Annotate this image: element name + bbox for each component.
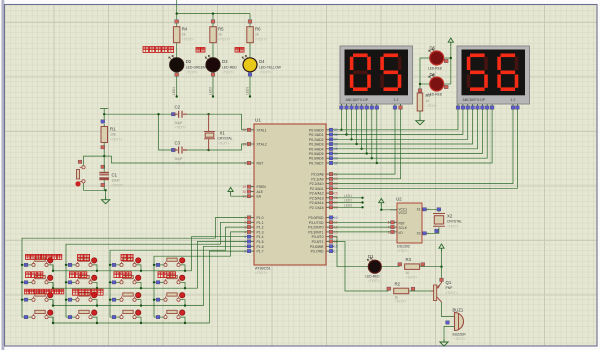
crystal X2 [433,208,462,233]
push button SW r2c3 [112,275,141,284]
svg-text:5: 5 [244,235,246,239]
wire left display common 1 to P2.0 [334,110,395,174]
wire col4 row1 left stub [154,264,164,266]
wire VCC-C2 top wire [104,113,173,115]
svg-text:P1.2: P1.2 [257,226,264,230]
svg-text:<TEXT>: <TEXT> [397,249,409,253]
junction node P0.4-left-display [360,148,362,150]
svg-text:1 2: 1 2 [394,98,399,102]
svg-text:PNP: PNP [446,286,454,290]
svg-text:35: 35 [334,147,338,151]
wire left display common 2 to P2.1 [334,110,401,179]
wire col4 row3 left stub [154,299,164,301]
wire P2.6 LED2 net wire [334,202,363,204]
junction node RST [103,155,105,157]
svg-text:X2: X2 [447,214,453,219]
ground (below R7) [416,118,424,125]
junction node col1 r1 [21,264,23,266]
red label keypad miao-ji [78,254,90,260]
svg-text:I/O: I/O [399,231,404,235]
svg-text:P1.1: P1.1 [257,221,264,225]
right display common pin stubs 1,2 [511,104,519,110]
svg-text:<TEXT>: <TEXT> [186,71,198,75]
svg-text:P0.6/AD6: P0.6/AD6 [309,157,324,161]
wire row4 col3 drop [136,317,141,323]
svg-text:R4: R4 [182,27,188,32]
junction node row2 c1 [52,287,54,289]
svg-text:P1.5: P1.5 [257,240,264,244]
svg-text:9: 9 [244,161,246,165]
wire row3 first drop [52,300,54,306]
wire right display common 2 to P2.3 [334,110,517,188]
svg-text:P1.7: P1.7 [257,250,264,254]
svg-text:P0.1/AD1: P0.1/AD1 [309,133,324,137]
wire col1 row4 left stub [22,316,32,318]
push button SW r3c2 [68,293,97,302]
red label keypad zuo-bian-jia [26,272,43,278]
wire col2 row2 left stub [66,281,76,283]
wire P2.7 LED3 net wire [334,206,363,208]
U1 right pins (P0.x/ADx, P2.x/Ax, P3.x) [308,128,338,254]
wire row4 col4 drop [180,317,185,323]
wire col3 row1 left stub [110,264,120,266]
wire C3 to crystal node [187,149,209,151]
svg-text:P3.6/WR: P3.6/WR [310,245,324,249]
svg-text:P1.6: P1.6 [257,245,264,249]
svg-text:P1.3: P1.3 [257,230,264,234]
svg-text:P2.4/A12: P2.4/A12 [310,192,324,196]
svg-text:EA: EA [257,195,262,199]
net label LED3 under D4 [246,87,252,98]
junction node col2 r3 [65,299,67,301]
junction node P0.2-left-display [350,138,352,140]
svg-text:P2.0/A8: P2.0/A8 [311,173,323,177]
svg-text:DS1302: DS1302 [397,245,410,249]
svg-text:P1.4: P1.4 [257,235,264,239]
junction node row4 c4 [184,322,186,324]
U2 pin stubs [388,208,429,235]
svg-text:5: 5 [388,221,390,225]
wire col2 row1 left stub [66,264,76,266]
LED D6 LED-RED [428,72,448,97]
wire C2 to crystal node [187,113,209,115]
wire col1 row3 left stub [22,299,32,301]
push button SW r4c3 [112,310,141,319]
svg-text:LED3: LED3 [246,87,250,95]
wire U2 X1 to crystal [429,209,439,212]
svg-text:R1: R1 [110,127,116,132]
crystal X1 [204,114,233,150]
wire row2 col2 drop [92,282,97,288]
wire P0.0 segment bus [334,110,458,130]
net label LED2 [344,199,352,203]
svg-text:LED1: LED1 [172,87,176,95]
svg-text:31: 31 [242,195,246,199]
svg-text:VCC2: VCC2 [399,211,408,215]
push button SW r3c1 [24,293,53,302]
IC U2 DS1302 body [396,197,422,254]
wire col3 row4 left stub [110,316,120,318]
svg-text:R3: R3 [406,257,412,262]
wire U1 P3.1 to U2 RST [334,221,390,223]
wire col3 row2 left stub [110,281,120,283]
svg-text:2: 2 [244,221,246,225]
svg-text:30: 30 [242,190,246,194]
svg-text:P3.5/T1: P3.5/T1 [312,240,324,244]
svg-text:LED-YELLOW: LED-YELLOW [259,66,282,70]
svg-text:1k: 1k [218,33,222,37]
svg-text:37: 37 [334,138,338,142]
wire keypad row 2 net to P1.5 [53,242,247,289]
svg-text:X2: X2 [417,232,421,236]
svg-text:R6: R6 [255,27,261,32]
svg-text:LED3: LED3 [344,204,352,208]
right 7SEG display showing 56 [457,46,530,104]
svg-text:LED2: LED2 [209,87,213,95]
wire XTAL2 wire to U1 [209,144,247,150]
svg-text:LED-GREEN: LED-GREEN [186,66,206,70]
ground (below C1) [101,197,109,204]
resistor R2 [387,281,409,303]
red label fen-ji (top, left of R6) [235,48,244,53]
svg-text:32: 32 [334,161,338,165]
svg-text:39: 39 [334,128,338,132]
svg-text:<TEXT>: <TEXT> [446,291,458,295]
svg-text:ABCDEFG DP: ABCDEFG DP [346,98,369,102]
svg-text:P0.5/AD5: P0.5/AD5 [309,152,324,156]
wire keypad column 4 net to P1.3 [154,232,247,317]
svg-text:CRYSTAL: CRYSTAL [447,220,462,224]
wire keypad row 1 net to P1.4 [53,237,247,271]
junction node LED2 [361,201,363,203]
wire P0.3 segment bus [334,110,473,144]
wire P0.7 segment bus [334,110,492,163]
svg-text:<TEXT>: <TEXT> [447,225,459,229]
wire branch to C3 [159,114,174,150]
wire col4 row4 left stub [154,316,164,318]
svg-text:D6: D6 [430,72,436,77]
wire Q1 collector to buzzer [442,302,453,317]
junction node row2 c3 [140,287,142,289]
junction node col1 r3 [21,299,23,301]
svg-text:P3.3/INT1: P3.3/INT1 [308,230,323,234]
wire row4 first drop [52,317,54,323]
wire keypad row 3 net to P1.6 [53,246,247,305]
junction node VCC-R1 [103,113,105,115]
svg-text:P3.4/T0: P3.4/T0 [312,235,324,239]
push button SW r3c3 [112,293,141,302]
red label keypad qi-dong-zan-ting-dao-ji-shi [25,289,64,294]
svg-text:<TEXT>: <TEXT> [395,300,407,304]
svg-text:1k: 1k [255,33,259,37]
svg-text:LED-RED: LED-RED [428,67,443,71]
junction node P0.1-left-display [345,133,347,135]
junction node C1-gnd [104,189,106,191]
wire D5 cathode to R7 [420,58,430,93]
svg-text:4: 4 [244,230,246,234]
svg-text:8: 8 [244,250,246,254]
junction node col4 r2 [153,281,155,283]
junction node rail-R4 [176,12,178,14]
junction node row4 c2 [96,322,98,324]
svg-text:1 2: 1 2 [511,98,516,102]
wire R3 to node [420,266,442,268]
left display segment drop wires [341,110,376,163]
svg-text:6: 6 [388,230,390,234]
svg-text:7: 7 [388,226,390,230]
svg-text:7: 7 [244,245,246,249]
svg-text:P2.7/A15: P2.7/A15 [310,206,324,210]
svg-text:36: 36 [334,142,338,146]
svg-text:P2.6/A14: P2.6/A14 [310,201,324,205]
svg-text:29: 29 [242,185,246,189]
svg-text:27: 27 [334,201,338,205]
svg-text:P0.0/AD0: P0.0/AD0 [309,128,324,132]
junction node row1 c3 [140,270,142,272]
wire P2.5 LED1 net wire [334,197,363,199]
svg-text:30pF: 30pF [175,121,184,125]
junction node row1 c1 [52,270,54,272]
svg-text:P3.7/RD: P3.7/RD [311,250,324,254]
power bar (VCC above R1) [100,109,108,115]
svg-text:RST: RST [257,162,264,166]
resistor R7 [417,89,437,111]
svg-text:<TEXT>: <TEXT> [112,184,124,188]
svg-text:38: 38 [334,133,338,137]
svg-text:P2.2/A10: P2.2/A10 [310,182,324,186]
junction node row1 c4 [184,270,186,272]
wire button to ground node [84,183,106,190]
svg-text:P3.2/INT0: P3.2/INT0 [308,226,323,230]
push button SW r1c3 [112,258,141,267]
wire keypad column 1 net to P1.0 [22,218,247,318]
wire P0.4 segment bus [334,110,478,149]
svg-text:<TEXT>: <TEXT> [222,71,234,75]
LED D4 LED-YELLOW [242,56,281,97]
U1 left pins (XTAL1,XTAL2,RST,PSEN,ALE,EA,P1.0-P1.7) [242,128,266,254]
wire row2 col4 drop [180,282,185,288]
resistor R5 [210,20,231,58]
junction node col2 r2 [65,281,67,283]
svg-text:ABCDEFG DP: ABCDEFG DP [463,98,486,102]
wire row3 col1 drop [48,300,53,306]
svg-text:28: 28 [334,206,338,210]
svg-text:24: 24 [334,187,338,191]
svg-text:Q1: Q1 [446,280,452,285]
junction node row3 c1 [52,304,54,306]
svg-text:SCLK: SCLK [399,226,408,230]
wire row1 col2 drop [92,265,97,271]
svg-text:P0.2/AD2: P0.2/AD2 [309,138,324,142]
net label LED2 under D3 [209,87,215,98]
svg-text:X1: X1 [417,208,421,212]
LED D3 LED-RED [205,56,237,97]
capacitor C1 10uF [99,156,123,190]
resistor R1 10k [101,120,122,156]
wire row2 col1 drop [48,282,53,288]
wire col2 row4 left stub [66,316,76,318]
svg-text:<TEXT>: <TEXT> [255,271,267,275]
red label keypad zuo-bian-jian [69,272,86,278]
svg-text:22: 22 [334,177,338,181]
wire row1 col4 drop [180,265,185,271]
wire node to reset button [84,156,105,165]
svg-text:<TEXT>: <TEXT> [255,38,267,42]
junction node XTAL2 [207,149,209,151]
wire buzzer to ground [444,327,453,339]
svg-text:<TEXT>: <TEXT> [406,275,418,279]
push button SW r1c4 [156,258,185,267]
svg-text:D2: D2 [186,59,192,64]
push button SW r2c1 [24,275,53,284]
svg-text:18: 18 [242,142,246,146]
junction node XTAL1 [207,113,209,115]
push button SW r4c2 [68,310,97,319]
svg-text:<TEXT>: <TEXT> [175,126,187,130]
svg-text:PSEN: PSEN [257,185,267,189]
junction node row2 c4 [184,287,186,289]
svg-text:26: 26 [334,196,338,200]
junction node LED3 [361,206,363,208]
push button SW r2c2 [68,275,97,284]
svg-text:<TEXT>: <TEXT> [218,38,230,42]
red label keypad fen-ji [121,254,133,260]
wire col2 row3 left stub [66,299,76,301]
svg-text:<TEXT>: <TEXT> [175,161,187,165]
red label keypad you-bian-jian [158,272,175,278]
svg-text:P3.0/RXD: P3.0/RXD [308,216,324,220]
svg-text:6: 6 [244,240,246,244]
svg-text:10: 10 [334,216,338,220]
svg-text:XTAL2: XTAL2 [257,143,267,147]
junction node col4 r1 [153,264,155,266]
wire D6 cathode stub [420,83,430,85]
svg-text:P1.0: P1.0 [257,216,264,220]
junction node P0.6-left-display [371,157,373,159]
svg-text:13: 13 [334,230,338,234]
junction node col3 r2 [109,281,111,283]
wire right display common 1 to P2.2 [334,110,513,184]
svg-text:D4: D4 [259,59,265,64]
wire P0.5 segment bus [334,110,482,154]
junction node P0.3-left-display [355,143,357,145]
wire row3 col2 drop [92,300,97,306]
junction node row3 c3 [140,304,142,306]
wire R2 to Q1 base lead [409,290,431,292]
wire keypad row 4 net to P1.7 [53,251,247,323]
wire row4 col1 drop [48,317,53,323]
wire P0.6 segment bus [334,110,487,158]
wire row1 col1 drop [48,265,53,271]
svg-text:<TEXT>: <TEXT> [218,141,230,145]
junction node D5-anode [450,57,452,59]
capacitor C2 30pF [171,105,187,130]
red label keypad ting-zhi-dao-ji-shi [73,289,104,295]
svg-text:BUZ1: BUZ1 [453,308,464,313]
junction node col3 r3 [109,299,111,301]
junction node row1 c2 [96,270,98,272]
wire keypad column 3 net to P1.2 [110,227,247,317]
wire col3 row3 left stub [110,299,120,301]
svg-text:23: 23 [334,182,338,186]
push button SW r1c1 [24,258,53,267]
svg-text:U1: U1 [255,118,261,123]
svg-text:X1: X1 [220,131,226,136]
svg-text:P2.3/A11: P2.3/A11 [310,187,324,191]
svg-text:<TEXT>: <TEXT> [182,38,194,42]
left display common pin stubs 1,2 [393,104,402,110]
wire D5 anode stub [444,57,451,59]
svg-text:LED-RED: LED-RED [222,66,237,70]
wire P0.2 segment bus [334,110,468,139]
junction node U2-vcc [380,209,382,211]
svg-text:U2: U2 [396,197,402,202]
svg-text:R2: R2 [395,281,401,286]
svg-text:XTAL1: XTAL1 [257,128,267,132]
svg-text:1k: 1k [182,33,186,37]
junction node P0.0-left-display [340,129,342,131]
wire to ground [105,190,107,196]
resistor R4 [173,20,194,58]
svg-text:R7: R7 [426,93,432,98]
svg-text:<TEXT>: <TEXT> [368,279,380,283]
push button SW r1c2 [68,258,97,267]
net label LED1 [344,194,352,198]
push button SW r2c4 [156,275,185,284]
wire col4 row2 left stub [154,281,164,283]
push button SW r4c1 [24,310,53,319]
IC U1 AT89C51 MCU body [254,118,326,276]
svg-text:10k: 10k [110,133,116,137]
wire D1 to R3 [381,266,399,268]
wire U1 P3.2 to U2 SCLK [334,226,390,228]
ground (below BUZ1) [440,339,448,346]
push button SW r4c4 [156,310,185,319]
red label keypad shi-shi-shi-jian-dao-ji-shi [26,254,62,259]
svg-text:RST: RST [399,222,405,226]
svg-text:P0.7/AD7: P0.7/AD7 [309,162,324,166]
wire row4 col2 drop [92,317,97,323]
wire U2 X2 to crystal [429,227,439,233]
svg-text:25: 25 [334,192,338,196]
svg-text:LED2: LED2 [344,199,352,203]
power arrow (Q1 emitter rail) [439,244,444,252]
LED D5 LED-RED [428,46,448,71]
junction node R3-Q1 [440,266,442,268]
LED D1 LED-RED [366,254,382,283]
wire row2 first drop [52,282,54,288]
wire VCC top rail [177,0,250,20]
svg-text:CRYSTAL: CRYSTAL [218,137,233,141]
junction node col4 r3 [153,299,155,301]
svg-text:P0.3/AD3: P0.3/AD3 [309,143,324,147]
junction node row4 c1 [52,322,54,324]
red label guan-bi-zhi-shi (top, left of R4) [143,47,174,53]
svg-text:C1: C1 [112,173,118,178]
wire row1 col3 drop [136,265,141,271]
wire row3 col3 drop [136,300,141,306]
wire row3 col4 drop [180,300,185,306]
push button (reset) [75,160,85,186]
junction node row4 c3 [140,322,142,324]
junction node C2-branch [157,113,159,115]
net label LED1 under D2 [172,87,178,98]
resistor R6 [247,20,268,58]
svg-text:C2: C2 [175,105,181,110]
svg-text:19: 19 [242,128,246,132]
svg-text:ALE: ALE [257,190,264,194]
power arrow (EA pin) [228,187,233,195]
